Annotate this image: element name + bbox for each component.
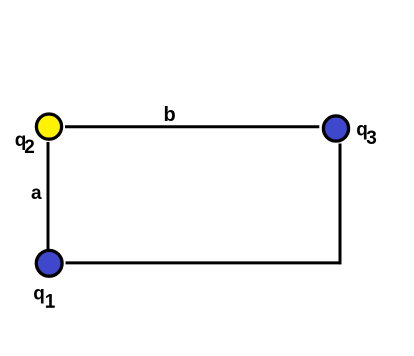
charge q2 (yellow) bbox=[36, 114, 61, 139]
svg-text:q: q bbox=[33, 283, 45, 304]
charge q1 (blue) bbox=[36, 250, 62, 276]
wire bottom side bbox=[66, 261, 342, 264]
svg-text:1: 1 bbox=[45, 292, 56, 313]
svg-text:a: a bbox=[31, 183, 42, 204]
wire b (top side) bbox=[65, 125, 319, 128]
wire right side bbox=[339, 144, 342, 265]
wire a (left side) bbox=[47, 142, 50, 250]
charge q3 (blue) bbox=[323, 116, 348, 141]
svg-text:3: 3 bbox=[366, 128, 377, 149]
svg-text:2: 2 bbox=[24, 137, 35, 158]
svg-text:b: b bbox=[164, 104, 176, 126]
